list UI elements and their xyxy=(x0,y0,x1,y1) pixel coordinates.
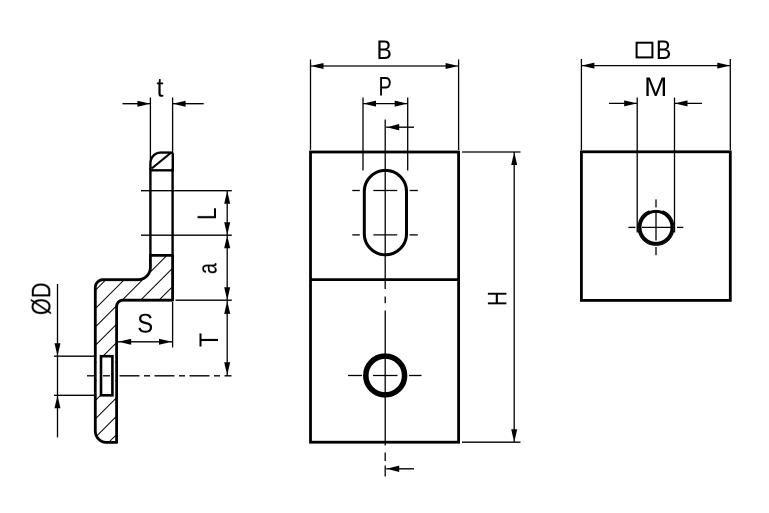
right view: thread arc (thin, with gap at top) xyxy=(638,211,674,245)
svg-text:P: P xyxy=(378,72,391,101)
dimension T xyxy=(226,300,228,376)
svg-text:T: T xyxy=(196,333,225,347)
left view: top cap sliver of flange xyxy=(150,153,172,171)
middle view: hole centre marks xyxy=(348,375,362,377)
dimension M: line + outside arrows xyxy=(609,102,637,104)
left view: hole white-out xyxy=(97,358,115,394)
dimension B xyxy=(311,65,459,67)
right view: hole centre marks vertical xyxy=(655,199,657,207)
svg-text:S: S xyxy=(137,309,153,338)
dimension T: extension lines xyxy=(176,299,232,301)
dimension ØD: line + outside arrows xyxy=(57,284,59,437)
middle view: vertical centreline xyxy=(384,120,386,290)
svg-text:B: B xyxy=(656,36,671,65)
right view: square plate outline xyxy=(581,152,730,301)
dimension L/a extension lines across bar xyxy=(141,190,232,192)
dimension B: extension lines xyxy=(310,60,312,151)
svg-text:H: H xyxy=(483,291,513,306)
dimension □B xyxy=(581,65,730,67)
section cut arrow bottom xyxy=(386,468,414,470)
dimension L xyxy=(226,191,228,236)
label □B xyxy=(637,43,653,58)
dimension P: extension lines xyxy=(362,98,364,171)
right view: hole centre marks horizontal xyxy=(628,226,635,228)
middle view: slot centre marks xyxy=(352,190,360,192)
dimension ØD: extension lines xyxy=(54,355,94,357)
svg-text:a: a xyxy=(193,262,222,274)
dimension □B: extension lines xyxy=(580,59,582,150)
left view: threaded bushing hole outline xyxy=(101,356,112,395)
left view: hatched section body (flange + plate) xyxy=(95,255,172,442)
dimension t: line + outside arrows xyxy=(123,103,151,105)
hole centreline xyxy=(87,375,95,377)
left view: cap hatch line xyxy=(152,153,171,169)
svg-text:M: M xyxy=(644,72,667,102)
svg-text:L: L xyxy=(193,208,222,221)
dimension P xyxy=(363,103,408,105)
dimension S xyxy=(118,341,172,343)
svg-text:B: B xyxy=(377,36,392,65)
dimension H xyxy=(513,152,515,442)
dimension H: extension lines xyxy=(462,151,521,153)
dimension M: extension lines xyxy=(636,98,638,233)
dimension a xyxy=(226,235,228,300)
middle view: round hole (thick ring) xyxy=(366,356,405,395)
dimension S: right extension line xyxy=(172,302,174,348)
middle view: plate outline xyxy=(311,152,459,442)
dimension t: extension lines xyxy=(149,98,151,164)
right view: tapped hole (thick circle) xyxy=(640,211,672,243)
svg-text:ØD: ØD xyxy=(27,283,57,316)
svg-text:t: t xyxy=(156,74,163,103)
middle view: slotted hole xyxy=(364,170,406,254)
middle view: mid joint line xyxy=(311,278,459,281)
section cut arrow top xyxy=(386,126,414,128)
left view: slot side walls (bar edges) xyxy=(149,168,151,257)
